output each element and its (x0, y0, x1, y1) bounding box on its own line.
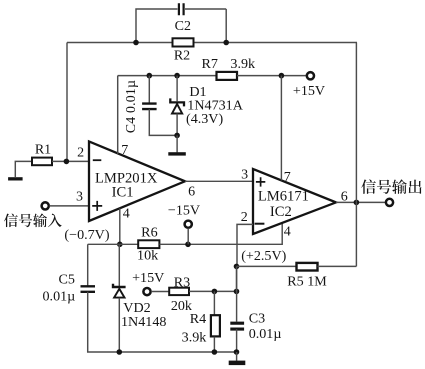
resistor R6 (138, 240, 159, 248)
terminal input (42, 202, 49, 209)
label 信号输入 (4, 213, 62, 227)
wire to D1 ground (176, 135, 178, 152)
diode VD2 (113, 284, 126, 298)
zener diode D1 (170, 98, 184, 113)
svg-text:(4.3V): (4.3V) (186, 111, 223, 127)
node divider junction (234, 289, 240, 295)
IC1 plus input sign (92, 201, 102, 211)
pin 3 label IC2 (241, 167, 248, 182)
wire 4.3V rail (118, 75, 217, 77)
node C4 top junction (147, 73, 153, 79)
label -15V (168, 202, 201, 218)
wire left feedback vertical (66, 43, 68, 162)
label R5 1M (287, 273, 327, 289)
label C3 value (249, 326, 282, 342)
svg-text:7: 7 (284, 170, 291, 185)
svg-text:R7: R7 (202, 56, 218, 72)
ground bottom (229, 361, 246, 366)
resistor R4 (211, 315, 220, 336)
pin 4 label IC1 (123, 207, 130, 222)
label R2 (174, 48, 190, 63)
wire VD2 top (118, 244, 120, 286)
terminal -15V (185, 221, 192, 228)
wire IC1 out to IC2 in (185, 180, 253, 182)
label 1N4148 (121, 314, 166, 330)
node feedback-R1 junction (64, 159, 70, 165)
IC1 minus input sign (93, 159, 102, 161)
capacitor C2 (179, 3, 184, 15)
svg-text:IC1: IC1 (112, 185, 134, 201)
wire C4 bottom (149, 109, 177, 135)
svg-text:R4: R4 (190, 311, 206, 327)
resistor R1 (32, 158, 52, 166)
op-amp IC2 (253, 169, 336, 234)
pin 7 label IC2 (284, 170, 291, 185)
label IC2 (270, 204, 292, 220)
svg-text:+15V: +15V (132, 270, 165, 286)
label C3 (249, 310, 265, 326)
svg-text:C2: C2 (175, 19, 191, 34)
pin 4 label IC2 (284, 224, 291, 239)
node C2-right junction (223, 40, 229, 46)
svg-text:2: 2 (77, 145, 84, 160)
capacitor C4 (142, 104, 157, 110)
svg-text:(+2.5V): (+2.5V) (241, 248, 286, 264)
svg-text:6: 6 (188, 184, 195, 199)
pin 2 label IC1 (77, 145, 84, 160)
wire R5 to feedback (318, 265, 357, 267)
label +15V bottom (132, 270, 165, 286)
wire C3 top (236, 266, 238, 321)
svg-text:+15V: +15V (293, 83, 326, 99)
svg-text:10k: 10k (137, 248, 159, 264)
terminal +15V bottom (143, 288, 150, 295)
label R3 value (171, 298, 193, 314)
pin 6 label IC2 (341, 189, 348, 204)
label -0.7V (64, 227, 109, 243)
wire ground to R1 (15, 161, 32, 177)
IC2 minus input sign (255, 223, 265, 225)
wire R3 to node (189, 290, 237, 292)
svg-text:3.9k: 3.9k (182, 330, 208, 346)
wire IC2 pin7 (280, 76, 282, 181)
node D1 ground junction (174, 133, 180, 139)
label C2 (175, 19, 191, 34)
wire output (336, 201, 385, 203)
ground R1 (8, 177, 23, 180)
svg-text:R5 1M: R5 1M (287, 273, 327, 289)
node D1 top junction (174, 73, 180, 79)
label 1N4731A (187, 97, 243, 113)
node R4 top junction (212, 289, 218, 295)
svg-text:0.01µ: 0.01µ (43, 288, 76, 304)
label LM6171 (258, 188, 309, 204)
wire IC2 pin2 (237, 224, 253, 266)
wire C5 top (87, 244, 89, 286)
svg-text:C3: C3 (249, 310, 265, 326)
wire IC1 pin4 (119, 208, 121, 244)
label R4 (190, 311, 206, 327)
wire R7 to +15V (237, 75, 306, 77)
svg-text:R1: R1 (35, 142, 51, 157)
label R6 value (137, 248, 159, 264)
label +15V top (293, 83, 326, 99)
node +2.5V junction (234, 264, 240, 270)
wire C2 branch (136, 9, 226, 43)
svg-text:C5: C5 (58, 272, 74, 288)
wire D1 top (176, 76, 178, 102)
resistor R2 (173, 38, 194, 46)
pin 7 label IC1 (121, 143, 128, 158)
node C2-left junction (133, 40, 139, 46)
wire -15V rail left (88, 243, 139, 245)
resistor R7 (217, 72, 238, 80)
svg-text:R6: R6 (141, 225, 157, 241)
svg-text:2: 2 (241, 210, 248, 225)
label C4 0.01u vertical (123, 80, 138, 133)
wire -15V terminal stub (187, 228, 189, 244)
ground D1 (168, 152, 186, 155)
IC2 plus input sign (256, 177, 265, 186)
wire top feedback (67, 42, 357, 44)
svg-text:LM6171: LM6171 (258, 188, 309, 204)
label +2.5V (241, 248, 286, 264)
node C3 bottom junction (234, 349, 240, 355)
label VD2 (123, 300, 150, 316)
svg-text:R2: R2 (174, 48, 190, 63)
label LMP201X (95, 170, 158, 186)
wire C3 bottom (236, 329, 238, 352)
label R3 (174, 274, 190, 290)
node output junction (354, 200, 360, 206)
node -15V junction (185, 242, 191, 248)
label 信号输出 (361, 179, 421, 194)
wire C4 top (148, 76, 150, 103)
resistor R3 (169, 288, 189, 295)
wire IC1 pin7 (117, 76, 119, 154)
wire R4 bottom (213, 337, 215, 352)
resistor R5 (297, 263, 318, 271)
svg-text:0.01µ: 0.01µ (249, 326, 282, 342)
label IC1 (112, 185, 134, 201)
svg-text:7: 7 (121, 143, 128, 158)
svg-text:3: 3 (76, 190, 83, 205)
op-amp IC1 (89, 142, 185, 222)
wire +2.5V down (236, 266, 238, 291)
svg-text:3.9k: 3.9k (230, 56, 256, 72)
wire right feedback vertical (355, 43, 357, 267)
svg-text:(−0.7V): (−0.7V) (64, 227, 109, 243)
node IC2 pin7 junction (279, 73, 285, 79)
wire -15V rail right (159, 223, 282, 244)
label R6 (141, 225, 157, 241)
node VD2 bottom junction (117, 349, 123, 355)
label R7 (202, 56, 218, 72)
svg-text:3: 3 (241, 167, 248, 182)
wire VD2 bottom (118, 298, 120, 352)
label D1 (189, 84, 206, 100)
node pin4-VD2 junction (117, 242, 123, 248)
wire +2.5V to R5 (237, 265, 297, 267)
wire +15V to R3 (151, 291, 169, 293)
capacitor C3 (230, 323, 244, 329)
capacitor C5 (81, 286, 96, 292)
wire R4 top (213, 291, 215, 315)
svg-text:C4 0.01µ: C4 0.01µ (123, 80, 138, 133)
pin 2 label IC2 (241, 210, 248, 225)
pin 6 label IC1 (188, 184, 195, 199)
wire ground stub bottom (236, 352, 238, 361)
wire R1 to IC1 pin2 (52, 160, 90, 162)
svg-text:4: 4 (123, 207, 130, 222)
wire input to IC1 pin3 (49, 205, 89, 207)
svg-text:4: 4 (284, 224, 291, 239)
svg-text:IC2: IC2 (270, 204, 292, 220)
label R4 value (182, 330, 208, 346)
terminal +15V top (307, 72, 314, 79)
label R1 (35, 142, 51, 157)
svg-text:1N4148: 1N4148 (121, 314, 166, 330)
svg-text:−15V: −15V (168, 202, 201, 218)
label C5 (58, 272, 74, 288)
label 4.3V (186, 111, 223, 127)
wire C5 bottom (88, 292, 237, 352)
label R7 value (230, 56, 256, 72)
wire D1 bottom (176, 114, 178, 136)
pin 3 label IC1 (76, 190, 83, 205)
label C5 value (43, 288, 76, 304)
terminal output (386, 199, 393, 206)
node R4 bottom junction (212, 349, 218, 355)
svg-text:R3: R3 (174, 274, 190, 290)
